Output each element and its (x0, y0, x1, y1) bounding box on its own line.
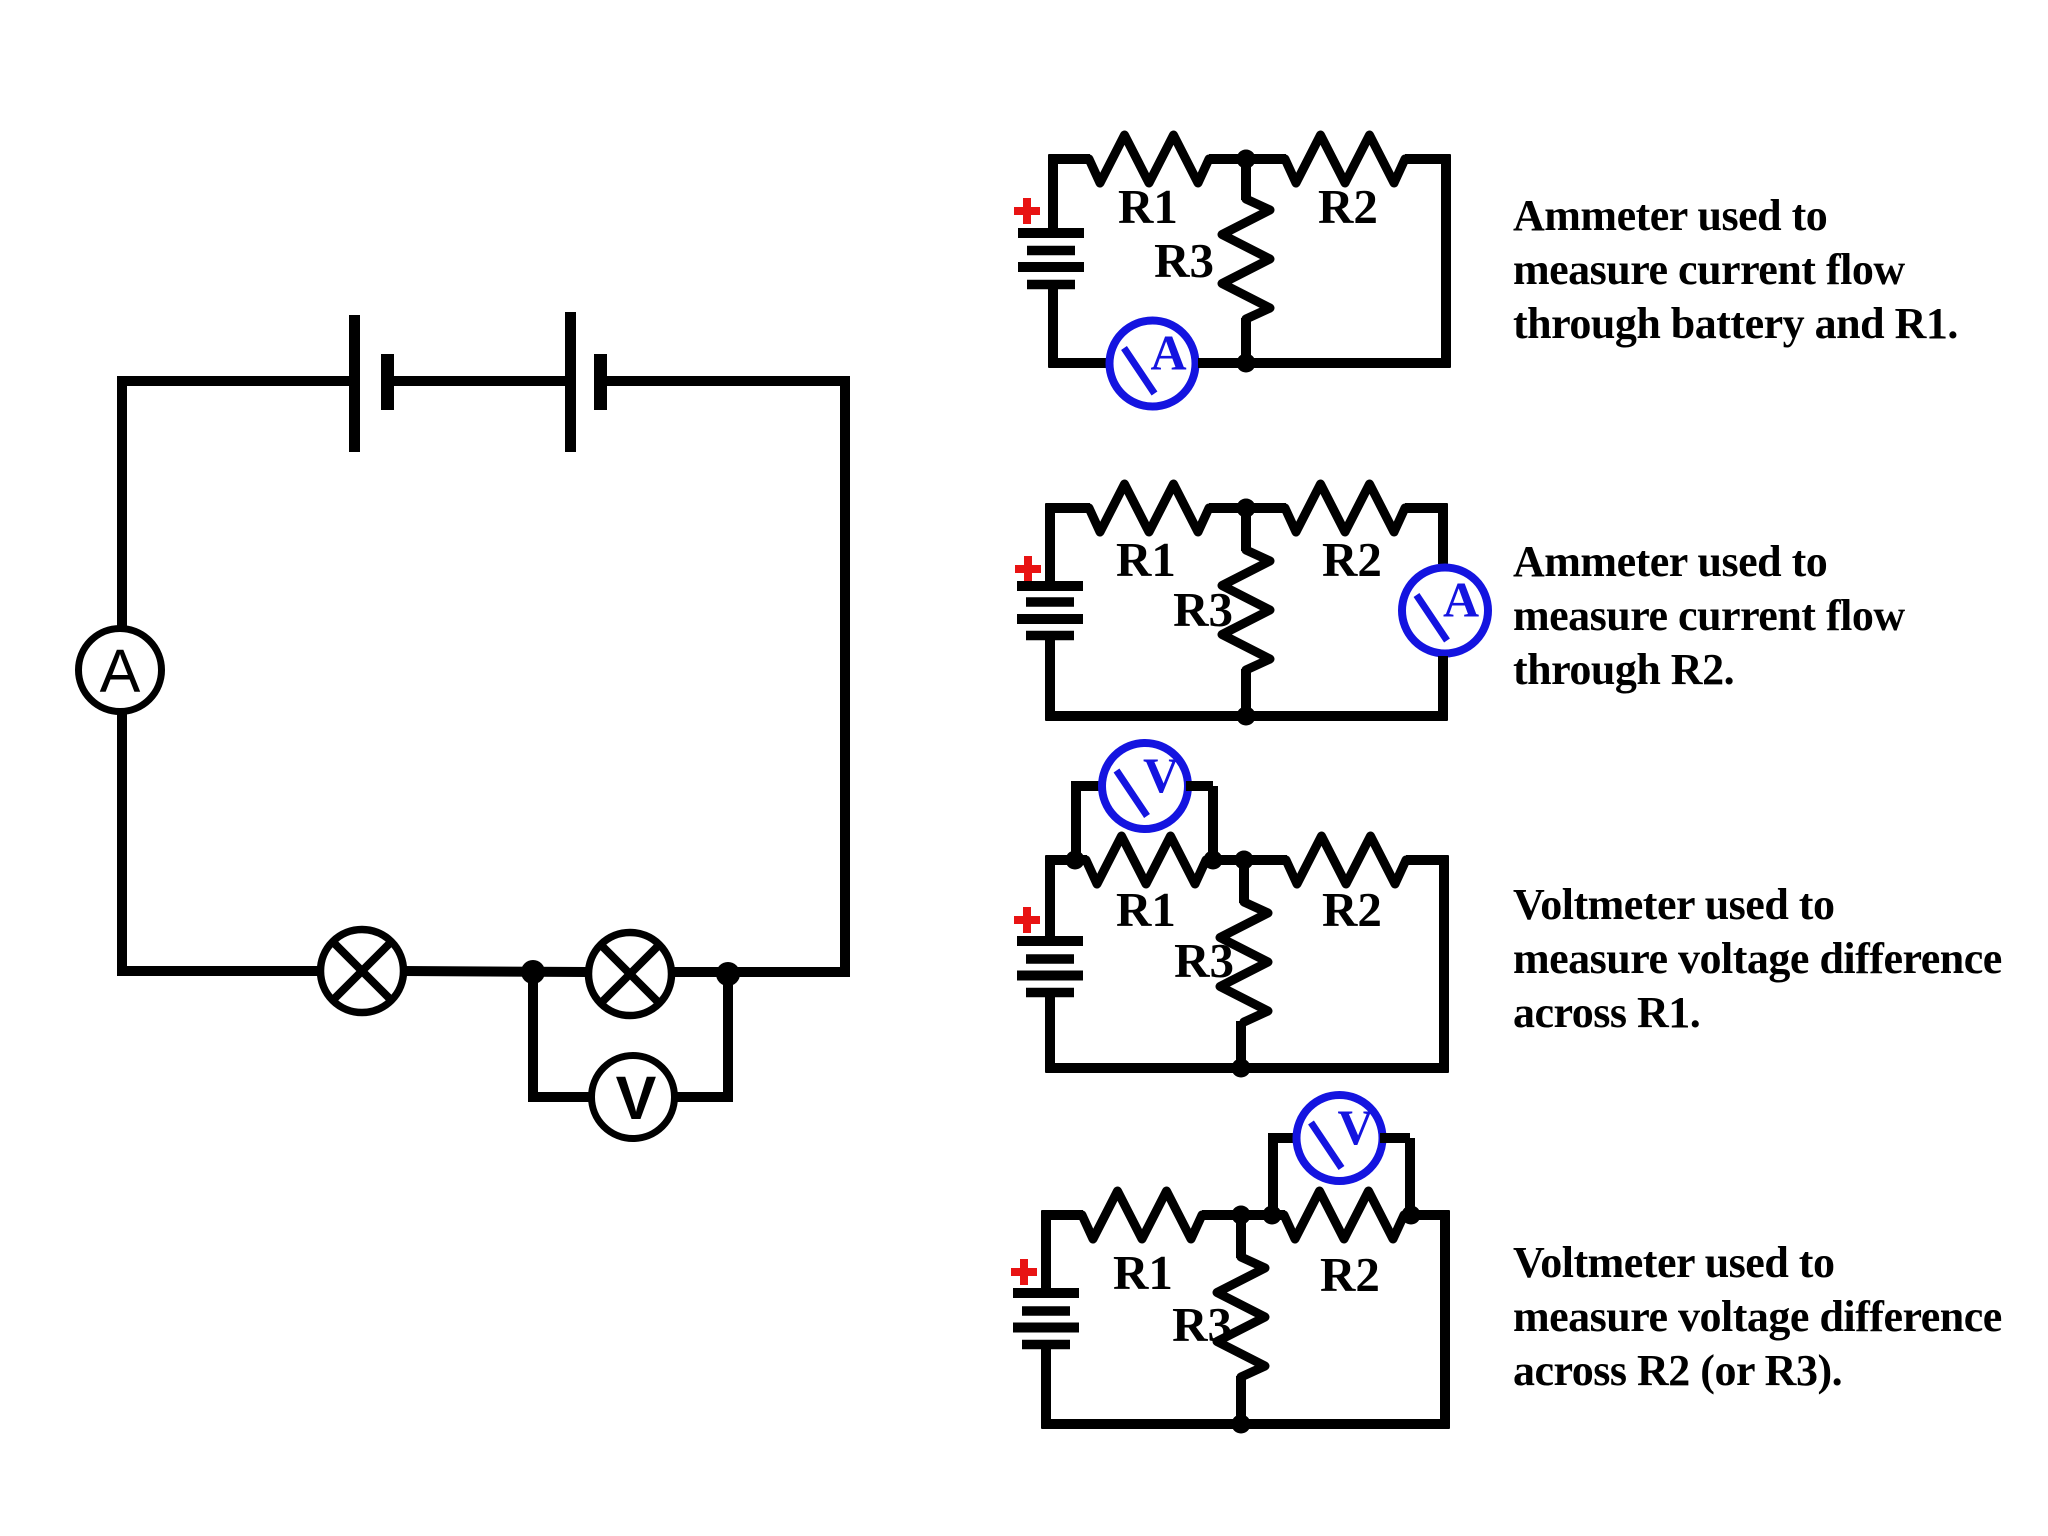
wire voltmeter branch right horizontal (674, 1092, 733, 1102)
wire battery cell 2 to top-right corner (603, 376, 850, 386)
wire c4 top-left segment (1042, 1210, 1084, 1220)
node c4 bottom junction (1232, 1415, 1251, 1434)
resistor R3 (circuit 4) (1217, 1257, 1265, 1377)
wire c4 R3 upper stub (1236, 1215, 1246, 1258)
wire c3 R3 lower stub (1236, 1021, 1246, 1068)
svg-text:R2: R2 (1320, 1247, 1380, 1302)
wire left-top corner to battery cell 1 (117, 376, 350, 386)
wire c3 bottom (1046, 1063, 1449, 1073)
wire c2 right lower (1438, 656, 1448, 721)
battery (circuit 3) (1017, 941, 1083, 993)
node c3 bottom junction (1232, 1059, 1251, 1078)
ammeter A1 circle (79, 629, 162, 712)
battery B1 cell 1 long plate (349, 315, 360, 452)
battery (circuit 4) (1013, 1293, 1079, 1345)
wire c2 bottom (1046, 711, 1448, 721)
svg-text:through battery and R1.: through battery and R1. (1513, 299, 1958, 348)
wire c2 top-left segment (1046, 503, 1091, 513)
svg-text:through R2.: through R2. (1513, 645, 1734, 694)
node c2 top junction (1237, 499, 1256, 518)
wire bottom-left corner to lamp 1 (117, 966, 320, 976)
wire c1 top middle segment (1209, 154, 1286, 164)
svg-text:R1: R1 (1116, 882, 1176, 937)
wire c1 top-left segment (1049, 154, 1091, 164)
battery B1 cell 1 short plate (381, 354, 394, 410)
node c1 top junction (1237, 150, 1256, 169)
wire c2 left lower (1045, 640, 1055, 721)
wire c4 top-right segment (1404, 1210, 1450, 1220)
svg-text:A: A (100, 637, 141, 705)
wire c4 top middle segment (1202, 1210, 1285, 1220)
node c3 voltmeter right tap (1204, 851, 1223, 870)
wire c3 voltmeter right vertical (1208, 786, 1218, 860)
node c3 R3 top junction (1235, 851, 1254, 870)
wire c1 right side (1441, 155, 1451, 368)
svg-text:V: V (1143, 747, 1179, 803)
wire c3 left upper (1045, 856, 1055, 937)
text caption 3 (1513, 880, 2002, 1037)
svg-text:across R1.: across R1. (1513, 988, 1700, 1037)
wire c2 top-right segment (1405, 503, 1448, 513)
node c3 voltmeter left tap (1066, 851, 1085, 870)
svg-text:A: A (1150, 325, 1186, 381)
wire between battery cells (390, 376, 566, 386)
voltmeter (circuit 3) (1102, 743, 1188, 829)
svg-text:R3: R3 (1172, 1297, 1232, 1352)
battery plus sign (circuit 2) (1015, 556, 1041, 582)
svg-text:V: V (1337, 1099, 1373, 1155)
wire left side upper vertical (117, 376, 127, 629)
wire c1 left lower (1048, 289, 1058, 368)
wire c2 left upper (1045, 504, 1055, 582)
svg-text:A: A (1443, 572, 1479, 628)
battery plus sign (circuit 1) (1014, 198, 1040, 224)
node c1 bottom junction (1237, 354, 1256, 373)
wire right side vertical (840, 376, 850, 976)
svg-text:R1: R1 (1116, 532, 1176, 587)
ammeter (circuit 1) (1110, 321, 1196, 407)
svg-text:R1: R1 (1113, 1245, 1173, 1300)
wire c3 top-right segment (1406, 855, 1449, 865)
voltmeter (circuit 4) (1297, 1095, 1383, 1181)
wire c3 voltmeter left vertical (1071, 786, 1081, 860)
node J2 junction dot (716, 962, 740, 986)
node c4 voltmeter left tap (1263, 1206, 1282, 1225)
wire c3 top middle segment (1206, 855, 1287, 865)
svg-text:measure current flow: measure current flow (1513, 245, 1905, 294)
svg-text:R3: R3 (1174, 933, 1234, 988)
text caption 1 (1513, 191, 1958, 348)
wire c3 left lower (1045, 997, 1055, 1073)
ammeter (circuit 2) (1402, 568, 1488, 654)
wire c2 R3 lower stub (1241, 669, 1251, 716)
wire c1 R3 lower stub (1241, 318, 1251, 363)
text caption 2 (1513, 537, 1905, 694)
battery plus sign (circuit 3) (1014, 907, 1040, 933)
wire c1 top-right segment (1405, 154, 1451, 164)
wire c1 R3 upper stub (1241, 159, 1251, 200)
svg-text:V: V (616, 1064, 657, 1132)
svg-text:R3: R3 (1173, 582, 1233, 637)
wire c4 left lower (1041, 1349, 1051, 1429)
battery B1 cell 2 long plate (565, 312, 576, 452)
svg-text:Ammeter used to: Ammeter used to (1513, 537, 1827, 586)
wire c4 voltmeter right vertical (1405, 1138, 1415, 1215)
text caption 4 (1513, 1238, 2002, 1395)
wire c3 voltmeter left horizontal (1071, 781, 1104, 791)
battery plus sign (circuit 4) (1011, 1259, 1037, 1285)
wire c4 left upper (1041, 1211, 1051, 1289)
resistor R2 (circuit 3) (1286, 836, 1406, 884)
wire c3 R3 upper stub (1239, 860, 1249, 903)
node c2 bottom junction (1237, 707, 1256, 726)
resistor R3 (circuit 1) (1222, 199, 1270, 319)
wire left side lower vertical (117, 711, 127, 976)
resistor R1 (circuit 4) (1082, 1191, 1202, 1239)
lamp L1 cross line 2 (331, 940, 394, 1003)
wire voltmeter branch left vertical (528, 972, 538, 1102)
svg-text:measure voltage difference: measure voltage difference (1513, 934, 2002, 983)
svg-text:Voltmeter used to: Voltmeter used to (1513, 880, 1834, 929)
node c4 voltmeter right tap (1402, 1206, 1421, 1225)
lamp L1 cross line 1 (331, 940, 394, 1003)
battery (circuit 2) (1017, 586, 1083, 636)
resistor R1 (circuit 3) (1086, 836, 1206, 884)
node J1 junction dot (521, 960, 545, 984)
resistor R2 (circuit 4) (1284, 1191, 1404, 1239)
resistor R2 (circuit 2) (1285, 484, 1405, 532)
wire c2 right upper (1438, 504, 1448, 565)
wire c1 bottom-right segment (1198, 358, 1451, 368)
node c4 R3 top junction (1232, 1206, 1251, 1225)
svg-text:across R2 (or R3).: across R2 (or R3). (1513, 1346, 1842, 1395)
battery B1 cell 2 short plate (594, 354, 607, 410)
resistor R1 (circuit 1) (1089, 135, 1209, 183)
resistor R3 (circuit 2) (1222, 550, 1270, 670)
wire c3 right side (1439, 856, 1449, 1073)
wire c4 voltmeter left vertical (1268, 1138, 1278, 1215)
lamp L2 circle (589, 933, 672, 1016)
wire c3 top-left segment (1046, 855, 1088, 865)
wire c1 bottom-left segment (1049, 358, 1108, 368)
wire lamp 1 to node J1 (404, 971, 588, 972)
svg-text:R1: R1 (1118, 179, 1178, 234)
wire c3 voltmeter right horizontal (1186, 781, 1213, 791)
wire lamp 2 to bottom-right corner (672, 967, 850, 977)
resistor R2 (circuit 1) (1285, 135, 1405, 183)
svg-text:measure current flow: measure current flow (1513, 591, 1905, 640)
wire c4 bottom (1042, 1419, 1450, 1429)
resistor R3 (circuit 3) (1220, 902, 1268, 1022)
svg-text:Voltmeter used to: Voltmeter used to (1513, 1238, 1834, 1287)
svg-text:R3: R3 (1154, 233, 1214, 288)
svg-text:R2: R2 (1322, 532, 1382, 587)
wire c4 R3 lower stub (1236, 1376, 1246, 1424)
wire c4 right side (1440, 1211, 1450, 1429)
svg-text:R2: R2 (1322, 882, 1382, 937)
wire c4 voltmeter right horizontal (1380, 1133, 1410, 1143)
voltmeter V1 circle (592, 1056, 675, 1139)
wire c2 top middle segment (1209, 503, 1286, 513)
wire c1 left upper (1048, 155, 1058, 230)
wire c4 voltmeter left horizontal (1268, 1133, 1299, 1143)
svg-text:measure voltage difference: measure voltage difference (1513, 1292, 2002, 1341)
wire c2 R3 upper stub (1241, 508, 1251, 551)
wire voltmeter branch right vertical (723, 974, 733, 1102)
wire voltmeter branch left horizontal (528, 1092, 592, 1102)
battery (circuit 1) (1018, 233, 1084, 285)
lamp L1 circle (321, 930, 404, 1013)
svg-text:Ammeter used to: Ammeter used to (1513, 191, 1827, 240)
lamp L2 cross line 1 (599, 943, 662, 1006)
lamp L2 cross line 2 (599, 943, 662, 1006)
svg-text:R2: R2 (1318, 179, 1378, 234)
resistor R1 (circuit 2) (1089, 484, 1209, 532)
